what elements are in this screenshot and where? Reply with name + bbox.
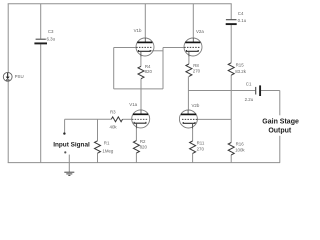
svg-text:83.2k: 83.2k (235, 69, 247, 74)
svg-text:R15: R15 (236, 63, 245, 68)
svg-text:270: 270 (197, 146, 205, 151)
svg-text:V1a: V1a (129, 102, 137, 107)
svg-text:Gain Stage: Gain Stage (262, 118, 299, 125)
svg-text:C1: C1 (246, 82, 252, 87)
svg-text:40k: 40k (110, 125, 118, 130)
svg-text:Input Signal: Input Signal (53, 142, 90, 149)
svg-text:R11: R11 (197, 141, 205, 146)
svg-text:6.3u: 6.3u (47, 37, 56, 42)
svg-text:270: 270 (193, 69, 201, 74)
svg-text:C4: C4 (238, 11, 244, 16)
svg-text:Output: Output (268, 128, 292, 135)
svg-text:820: 820 (140, 145, 148, 150)
svg-text:2.2u: 2.2u (245, 97, 254, 102)
svg-text:R2: R2 (140, 139, 146, 144)
svg-text:820: 820 (145, 69, 153, 74)
svg-text:100k: 100k (235, 147, 245, 152)
svg-text:C3: C3 (48, 29, 54, 34)
svg-text:R1: R1 (104, 141, 110, 146)
svg-text:R8: R8 (193, 63, 199, 68)
svg-text:R16: R16 (236, 142, 245, 147)
svg-text:V2a: V2a (196, 29, 204, 34)
svg-text:1Meg: 1Meg (102, 149, 114, 154)
svg-text:V1b: V1b (134, 28, 142, 33)
svg-text:0.1u: 0.1u (238, 18, 247, 23)
svg-text:R3: R3 (110, 110, 116, 115)
svg-text:V2b: V2b (192, 103, 200, 108)
svg-text:PSU: PSU (15, 74, 24, 79)
